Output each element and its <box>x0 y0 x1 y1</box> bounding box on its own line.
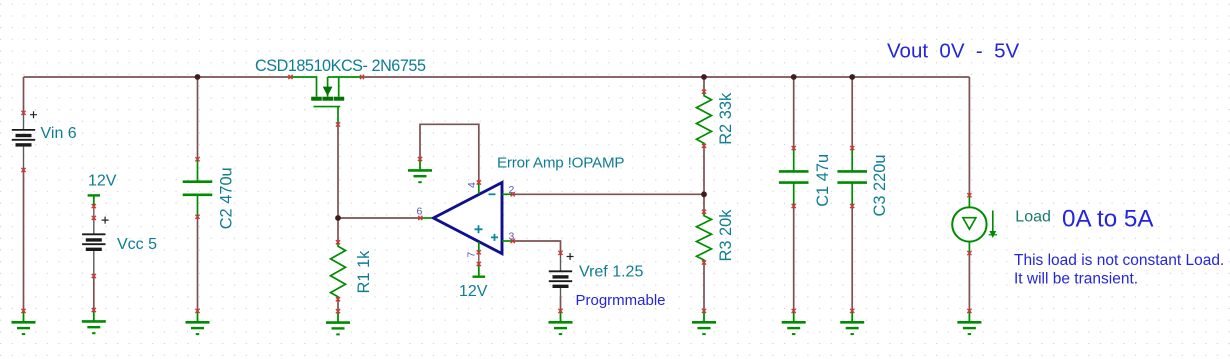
pin marker U1 pin3 <box>511 239 515 243</box>
wire rail to R2 <box>703 77 705 92</box>
svg-text:0A to 5A: 0A to 5A <box>1062 205 1154 232</box>
pin marker C1 gnd <box>792 309 796 313</box>
plus mark Vcc <box>102 217 109 224</box>
pin marker Vref gnd <box>558 309 562 313</box>
svg-text:Vin 6: Vin 6 <box>41 125 77 142</box>
svg-text:12V: 12V <box>459 283 488 300</box>
svg-text:Vref 1.25: Vref 1.25 <box>579 264 643 281</box>
pin marker C2 bot <box>195 215 199 219</box>
wire node A to R1 <box>337 218 339 242</box>
resistor R1 <box>331 242 346 299</box>
wire T1 gate to node A <box>337 125 339 219</box>
terminal 12V pin7 <box>473 265 486 277</box>
ground Vref <box>549 311 573 334</box>
wire Vref to ground <box>560 296 562 311</box>
wire C2 top <box>197 77 199 159</box>
transistor T1 CSD18510KCS <box>291 77 363 124</box>
battery Vref <box>549 254 572 297</box>
capacitor C1 <box>779 148 809 206</box>
terminal 12V Vcc <box>88 195 100 205</box>
wire top rail left of T1 <box>24 76 291 78</box>
svg-text:It will be transient.: It will be transient. <box>1014 271 1138 288</box>
load current source <box>952 195 997 253</box>
pin marker Vin+ <box>21 111 25 115</box>
wire Vin bottom <box>23 170 25 311</box>
pin marker C1 bot <box>792 204 796 208</box>
op-amp plus mark center <box>475 225 483 233</box>
pin marker T1 source <box>360 75 364 79</box>
wire load to ground <box>968 253 970 311</box>
pin marker load top <box>967 193 971 197</box>
wire rail corner to load <box>968 77 970 195</box>
ground R3 <box>692 311 716 334</box>
svg-text:Error Amp !OPAMP: Error Amp !OPAMP <box>497 154 624 171</box>
pin marker Vin- <box>21 168 25 172</box>
wire top rail right of T1 <box>362 76 969 78</box>
wire op-amp pin7 to 12V terminal <box>478 252 480 264</box>
svg-text:Progrmmable: Progrmmable <box>576 292 666 309</box>
node B junction <box>701 191 707 197</box>
svg-text:CSD18510KCS- 2N6755: CSD18510KCS- 2N6755 <box>255 57 426 75</box>
battery Vin <box>12 114 35 171</box>
wire C1 top <box>793 77 795 148</box>
pin marker C3 bot <box>850 204 854 208</box>
svg-text:R3 20k: R3 20k <box>717 209 735 262</box>
pin marker load bot <box>967 251 971 255</box>
node C1 junction <box>791 74 797 80</box>
pin marker Vref+ <box>558 251 562 255</box>
wire Vcc bottom <box>93 276 95 310</box>
pin marker R2 bot <box>702 144 706 148</box>
pin marker T1 drain <box>288 75 292 79</box>
wire R3 to ground <box>703 263 705 311</box>
svg-text:4: 4 <box>466 182 478 188</box>
pin marker T1 gate <box>336 122 340 126</box>
op-amp plus mark pin3 <box>491 234 498 241</box>
pin marker R2 top <box>702 90 706 94</box>
wire C2 bottom <box>197 217 199 311</box>
resistor R3 <box>697 212 712 263</box>
pin marker C2 gnd <box>195 309 199 313</box>
pin marker C1 top <box>792 146 796 150</box>
op-amp minus mark <box>489 193 496 195</box>
node R2 junction <box>701 74 707 80</box>
pin marker Vcc+ <box>92 216 96 220</box>
pin marker C3 top <box>850 146 854 150</box>
wire R1 to ground <box>337 299 339 311</box>
svg-text:This load is not constant Load: This load is not constant Load. <box>1014 252 1224 269</box>
pin marker Vcc term <box>92 204 96 208</box>
svg-text:6: 6 <box>417 206 423 218</box>
pin marker U1 pin4 <box>477 180 481 184</box>
pin marker R3 gnd <box>702 309 706 313</box>
svg-text:C2 470u: C2 470u <box>218 167 236 229</box>
node C2 junction <box>195 74 201 80</box>
pin marker U1 out <box>418 216 422 220</box>
wire C1 bottom <box>793 206 795 311</box>
pin marker 12V term <box>477 262 481 266</box>
plus mark Vin <box>30 111 37 118</box>
resistor R2 <box>697 92 712 146</box>
wire op-amp pin2 to node B <box>513 193 704 195</box>
op-amp U1 Error Amp <box>421 183 513 254</box>
node A junction <box>335 215 341 221</box>
pin marker load gnd <box>967 309 971 313</box>
pin marker C2 top <box>195 157 199 161</box>
pin marker Vcc gnd <box>92 308 96 312</box>
ground load <box>957 311 981 334</box>
svg-text:C3 220u: C3 220u <box>871 155 889 217</box>
ground Vin <box>12 311 36 334</box>
pin marker U1 gnd <box>418 157 422 161</box>
svg-text:R1 1k: R1 1k <box>355 250 373 294</box>
capacitor C3 <box>837 148 867 206</box>
ground op-amp pin4 <box>408 159 432 182</box>
svg-text:Vout 0V - 5V: Vout 0V - 5V <box>887 40 1020 63</box>
capacitor C2 <box>183 159 213 217</box>
svg-text:7: 7 <box>466 252 478 258</box>
pin marker Vcc- <box>92 274 96 278</box>
wire node A to op-amp output <box>338 217 420 219</box>
ground Vcc <box>82 310 106 333</box>
wire R2 to node B <box>703 146 705 212</box>
ground C3 <box>840 311 864 334</box>
pin marker R1 bot <box>336 297 340 301</box>
pin marker U1 pin7 <box>477 250 481 254</box>
wire C3 bottom <box>851 206 853 311</box>
svg-text:12V: 12V <box>88 173 117 190</box>
pin marker Vin gnd <box>21 309 25 313</box>
pin marker R1 gnd <box>336 309 340 313</box>
pin marker C3 gnd <box>850 309 854 313</box>
ground C2 <box>186 311 210 334</box>
pin marker R3 top <box>702 210 706 214</box>
svg-text:R2 33k: R2 33k <box>717 92 735 145</box>
svg-text:C1 47u: C1 47u <box>814 154 832 207</box>
svg-text:Vcc 5: Vcc 5 <box>117 236 157 253</box>
wire op-amp pin3 to Vref <box>513 241 561 253</box>
wire Vcc top link <box>93 206 95 218</box>
node C3 junction <box>849 74 855 80</box>
plus mark Vref <box>567 253 574 260</box>
pin marker R1 top <box>336 240 340 244</box>
pin marker U1 pin2 <box>511 192 515 196</box>
wire op-amp pin4 to ground <box>420 124 479 182</box>
pin marker R3 bot <box>702 260 706 264</box>
wire C3 top <box>851 77 853 148</box>
battery Vcc <box>82 219 105 277</box>
ground R1 <box>326 311 350 334</box>
ground C1 <box>782 311 806 334</box>
wire Vin top <box>23 77 25 113</box>
svg-text:Load: Load <box>1015 208 1051 225</box>
